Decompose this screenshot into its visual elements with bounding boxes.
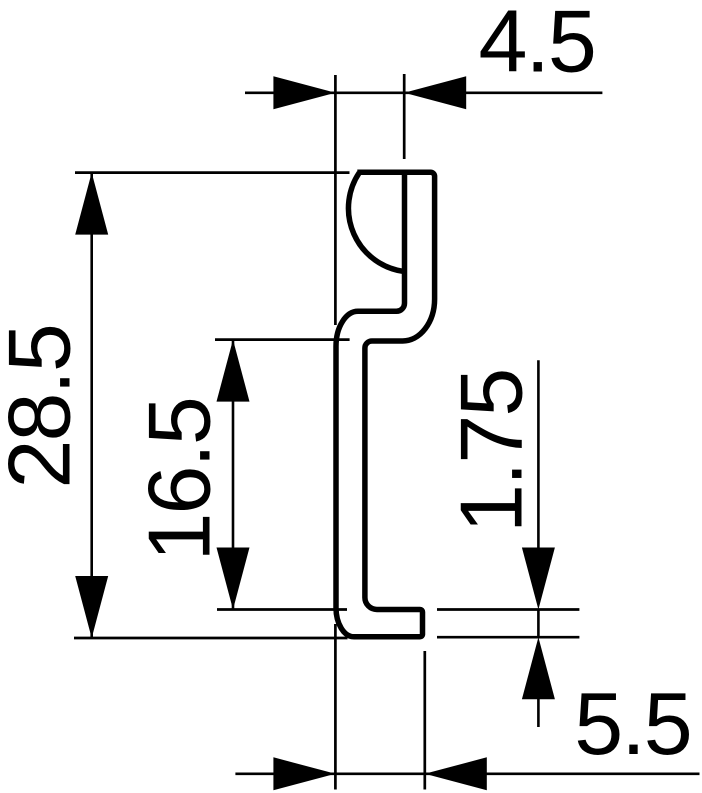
- profile outline: [336, 172, 435, 637]
- svg-text:1.75: 1.75: [442, 370, 541, 533]
- arrow 5.5 left: [273, 757, 335, 790]
- dimension line 4.5: [245, 92, 602, 95]
- arrow 28.5 bottom: [75, 576, 108, 638]
- svg-text:5.5: 5.5: [574, 674, 690, 773]
- extension line 5.5 left (x=335.4): [334, 624, 337, 790]
- extension line 28.5 bottom (y=637.5): [74, 637, 348, 640]
- arrow 1.75 up: [522, 637, 555, 699]
- dimension line 1.75 middle connector: [537, 610, 540, 638]
- svg-text:28.5: 28.5: [0, 325, 89, 488]
- extension line 16.5 bottom left (y=609.5): [217, 608, 347, 611]
- extension line top-right (x=404.2): [403, 74, 406, 159]
- dimension line 28.5: [90, 173, 93, 638]
- extension line 1.75 lower right (y=637.2): [437, 636, 579, 639]
- extension line 1.75 upper right (y=609.5): [437, 608, 579, 611]
- curl arc: [348, 173, 402, 272]
- dimension line 1.75 upper tail: [537, 360, 540, 548]
- svg-text:4.5: 4.5: [479, 0, 595, 91]
- arrow 16.5 top: [217, 340, 250, 402]
- svg-text:16.5: 16.5: [130, 398, 229, 561]
- dimension line 16.5: [232, 340, 235, 610]
- arrow 4.5 left: [273, 76, 335, 109]
- arrow 16.5 bottom: [217, 548, 250, 610]
- arrow 5.5 right: [425, 757, 487, 790]
- arrow 1.75 down: [522, 548, 555, 610]
- extension line 16.5 top (y=339.6): [215, 338, 350, 341]
- dimension line 5.5: [235, 772, 699, 775]
- extension line 5.5 right (x=424.8): [423, 651, 426, 790]
- dimension line 1.75 lower tail: [537, 698, 540, 727]
- extension line 28.5 top (y=172.6): [75, 171, 350, 174]
- extension line top-left (x=335.4): [334, 75, 337, 325]
- arrow 4.5 right: [404, 76, 466, 109]
- arrow 28.5 top: [75, 173, 108, 235]
